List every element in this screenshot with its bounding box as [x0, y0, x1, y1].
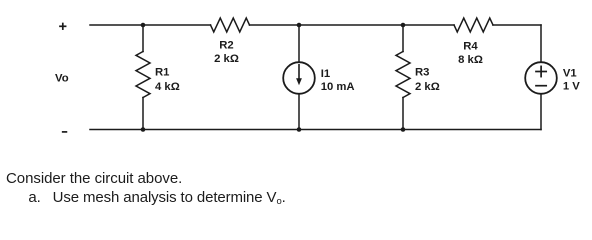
wire bottom: [90, 129, 541, 131]
current source I1: [283, 62, 315, 94]
wire R3 branch top lead: [402, 25, 404, 52]
svg-text:V1: V1: [563, 67, 577, 79]
svg-text:10 mA: 10 mA: [321, 81, 355, 93]
resistor R1: [136, 52, 150, 98]
wire top left: [90, 24, 211, 26]
svg-text:2 kΩ: 2 kΩ: [214, 53, 239, 65]
wire R1 branch top lead: [142, 25, 144, 52]
svg-text:8 kΩ: 8 kΩ: [458, 54, 483, 66]
wire I1 branch top lead: [298, 25, 300, 62]
svg-text:4 kΩ: 4 kΩ: [155, 81, 180, 93]
svg-text:R1: R1: [155, 67, 169, 79]
caption line 2: [28, 189, 285, 206]
wire top right: [493, 24, 541, 26]
label R3 value: [415, 67, 440, 93]
wire I1 branch bottom lead: [298, 94, 300, 130]
resistor R2: [211, 18, 250, 32]
label V1 value: [563, 67, 580, 92]
node junction top R3: [401, 23, 406, 28]
svg-text:R4: R4: [463, 41, 478, 53]
wire R3 branch bottom lead: [402, 98, 404, 130]
svg-text:R3: R3: [415, 67, 429, 79]
caption line 1: [6, 170, 182, 187]
svg-text:1 V: 1 V: [563, 80, 580, 92]
label I1 value: [321, 68, 355, 93]
resistor R4: [454, 18, 493, 32]
svg-text:Vo: Vo: [55, 73, 69, 85]
voltage source V1: [525, 62, 557, 94]
svg-text:R2: R2: [219, 40, 233, 52]
wire right lower: [540, 94, 542, 130]
wire top middle: [250, 24, 455, 26]
resistor R3: [396, 52, 410, 98]
label R2 value: [214, 40, 239, 65]
node junction bottom I1: [297, 127, 302, 132]
node junction top I1: [297, 23, 302, 28]
terminal plus sign: [60, 24, 66, 30]
label R4 value: [458, 41, 483, 67]
wire R1 branch bottom lead: [142, 98, 144, 130]
terminal minus sign: [63, 131, 67, 133]
node junction bottom R3: [401, 127, 406, 132]
node junction top R1: [141, 23, 146, 28]
wire right upper: [540, 25, 542, 62]
svg-text:I1: I1: [321, 68, 330, 80]
label R1 value: [155, 67, 180, 94]
svg-text:2 kΩ: 2 kΩ: [415, 81, 440, 93]
node junction bottom R1: [141, 127, 146, 132]
